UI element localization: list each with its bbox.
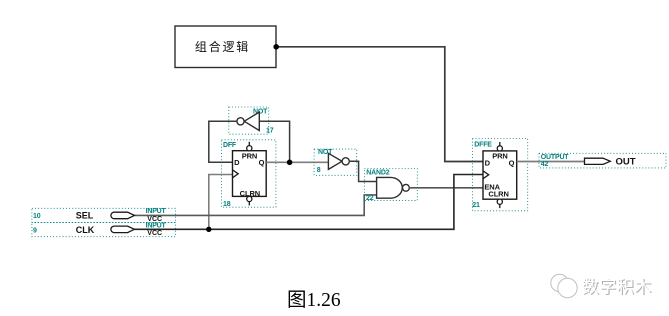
wire: SEL net to NAND22 input B bbox=[134, 195, 376, 216]
svg-text:9: 9 bbox=[33, 227, 37, 234]
not-gate NOT 8 bbox=[314, 149, 357, 175]
watermark logo (two overlapping circles) bbox=[551, 274, 577, 297]
junction: combo box output node bbox=[273, 44, 279, 50]
svg-text:INPUT: INPUT bbox=[146, 222, 167, 229]
svg-text:17: 17 bbox=[266, 128, 274, 135]
output pin OUT (42) bbox=[539, 153, 666, 168]
block: combinational logic box 组合逻辑 bbox=[175, 26, 276, 68]
svg-text:NAND2: NAND2 bbox=[366, 169, 389, 176]
wire: Q feedback up to NOT17 input bbox=[259, 121, 289, 162]
svg-text:42: 42 bbox=[541, 161, 549, 168]
svg-text:Q: Q bbox=[509, 158, 515, 167]
nand-gate NAND2 22 bbox=[364, 169, 417, 203]
wire: NAND22 output to DFFE ENA bbox=[409, 187, 483, 189]
svg-text:PRN: PRN bbox=[492, 152, 508, 161]
flip-flop DFF 18 bbox=[222, 140, 276, 208]
svg-text:数字积木: 数字积木 bbox=[582, 277, 652, 296]
svg-text:组合逻辑: 组合逻辑 bbox=[195, 39, 250, 54]
not-gate NOT 17 (mirrored inverter) bbox=[229, 107, 274, 135]
svg-text:图1.26: 图1.26 bbox=[287, 290, 341, 311]
svg-text:10: 10 bbox=[33, 213, 41, 220]
wire: CLK branch up to DFF18 clock bbox=[209, 175, 233, 230]
input pin CLK (9) bbox=[32, 222, 176, 237]
svg-text:INPUT: INPUT bbox=[146, 208, 167, 215]
svg-text:18: 18 bbox=[223, 201, 231, 208]
svg-text:21: 21 bbox=[472, 202, 480, 209]
junction: Q output node bbox=[287, 160, 293, 166]
wire: CLK net to DFFE clock bbox=[134, 175, 483, 230]
svg-text:SEL: SEL bbox=[76, 211, 94, 221]
svg-text:Q: Q bbox=[259, 158, 265, 167]
wire: DFF18 Q output line to NOT8 input bbox=[266, 161, 328, 163]
svg-text:VCC: VCC bbox=[147, 230, 162, 237]
svg-text:DFFE: DFFE bbox=[474, 141, 492, 148]
svg-text:D: D bbox=[234, 158, 240, 167]
wire: combo box output to DFFE D input bbox=[276, 47, 483, 162]
svg-text:PRN: PRN bbox=[242, 151, 258, 160]
input pin SEL (10) bbox=[32, 208, 176, 223]
watermark text 数字积木 bbox=[582, 277, 653, 297]
svg-text:CLK: CLK bbox=[76, 225, 95, 235]
svg-text:22: 22 bbox=[366, 195, 374, 202]
svg-text:D: D bbox=[485, 158, 491, 167]
svg-text:CLRN: CLRN bbox=[488, 190, 508, 199]
svg-text:DFF: DFF bbox=[223, 142, 237, 149]
wire: NOT8 output jog down to NAND22 input A bbox=[349, 161, 376, 181]
wire: NOT17 output down to DFF18 D input bbox=[209, 121, 237, 162]
flip-flop DFFE 21 bbox=[472, 139, 527, 211]
junction: CLK node bbox=[206, 227, 211, 232]
wire: DFFE Q output to OUT pin bbox=[517, 161, 585, 163]
svg-text:8: 8 bbox=[317, 167, 321, 174]
svg-text:OUT: OUT bbox=[616, 156, 636, 167]
